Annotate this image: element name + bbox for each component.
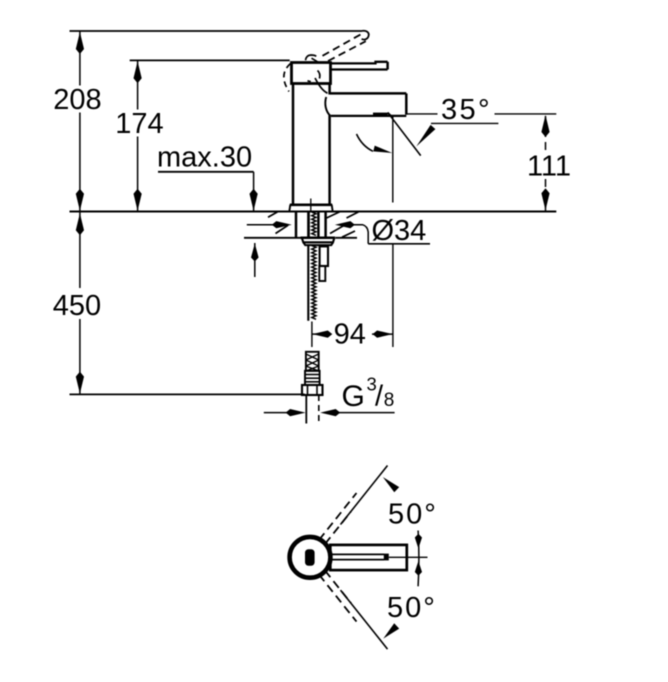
dimension 94 line	[312, 331, 392, 338]
cap detail squiggles	[306, 55, 320, 82]
counter underside line right	[336, 237, 358, 239]
faucet body left line	[292, 84, 295, 205]
lever rotation dashed arc	[284, 64, 291, 92]
counter hatch left	[268, 212, 288, 234]
svg-text:50°: 50°	[387, 592, 437, 624]
mounting washer	[301, 238, 336, 245]
svg-text:G: G	[342, 380, 365, 413]
rod left edge below washer	[307, 245, 309, 321]
50 degree angle reference line	[415, 531, 422, 587]
max.30 underline leader	[158, 171, 254, 173]
G3/8 label	[342, 374, 395, 414]
top view centerline	[389, 556, 428, 558]
reference line at hose end (450 bottom)	[70, 393, 305, 395]
dimension 450 line	[76, 212, 84, 395]
svg-text:111: 111	[527, 151, 571, 183]
50 degree arc arrow lower	[383, 623, 399, 638]
faucet body right line lower	[328, 116, 331, 205]
flexible hose braid	[306, 352, 319, 371]
top view lever slot	[332, 554, 389, 561]
dimension 94 extension left	[311, 322, 313, 348]
svg-text:174: 174	[115, 108, 163, 140]
hose end tube dashed edge	[318, 395, 320, 424]
dimension 94 extension right	[392, 244, 394, 347]
max.30 dimension line upper	[250, 172, 258, 212]
spout bottom line	[331, 115, 406, 117]
hose end tube left edge	[305, 395, 307, 424]
spout-body fillet curve	[325, 97, 330, 116]
faucet cap (cartridge housing)	[292, 63, 331, 84]
dimension 208 line	[76, 31, 84, 212]
svg-text:Ø34: Ø34	[372, 215, 427, 247]
extension line 174 (cap top reference)	[130, 59, 290, 61]
spray angle curved arrow	[357, 134, 374, 151]
top view cap pill	[305, 549, 315, 566]
diameter 34 arrow left	[247, 221, 292, 228]
35 degree arrow on spray line	[416, 125, 435, 147]
mounting shank verticals	[296, 212, 326, 238]
dimension 174 line	[134, 60, 142, 211]
svg-text:208: 208	[53, 84, 101, 116]
shank sleeve upper	[320, 246, 328, 266]
max.30 dimension line lower	[251, 243, 259, 277]
top view lever swung up (dashed)	[319, 466, 388, 545]
spray direction 35deg diagonal line	[390, 115, 421, 156]
lever raised position (dashed)	[323, 31, 369, 61]
threaded rod (in counter)	[312, 212, 316, 235]
faucet body right line upper	[328, 84, 331, 95]
G3/8 dimension arrows	[264, 409, 395, 416]
faucet base escutcheon	[289, 205, 332, 212]
dimension 111 line dashed	[541, 115, 549, 211]
top view lever rectangle	[330, 545, 407, 570]
hose hex nut	[302, 385, 323, 395]
35 degree leader arrow line	[431, 122, 498, 124]
spout top line	[330, 92, 407, 95]
spout inner curve	[315, 78, 328, 93]
dimension 111 leader right	[495, 113, 557, 115]
threaded rod (below washer)	[312, 246, 316, 320]
svg-text:94: 94	[334, 319, 366, 351]
svg-text:/: /	[375, 381, 384, 413]
top view body circle	[290, 537, 331, 578]
deck / counter top line	[70, 211, 557, 213]
svg-text:8: 8	[384, 390, 395, 411]
aerator	[373, 113, 391, 117]
top view lever swung down (dashed)	[319, 571, 388, 650]
counter underside line left	[244, 237, 301, 239]
shank sleeve lower	[319, 266, 325, 281]
svg-text:50°: 50°	[388, 499, 438, 531]
svg-text:450: 450	[53, 290, 101, 322]
body centerline above deck	[310, 199, 312, 213]
diameter 34 underline	[368, 243, 430, 245]
50 degree arc arrow upper	[383, 477, 399, 492]
hose ferrule rings	[305, 371, 320, 385]
svg-text:max.30: max.30	[157, 142, 252, 174]
counter hatch right	[327, 212, 359, 237]
spray direction vertical reference line	[392, 115, 394, 203]
spout right end line	[405, 93, 408, 114]
svg-text:35°: 35°	[441, 94, 492, 126]
lever arm (side view)	[331, 62, 388, 70]
dimension 111 leader left (35deg)	[406, 113, 437, 115]
diameter 34 arrow right	[335, 221, 368, 244]
extension line top (spout/handle top reference)	[70, 30, 363, 32]
